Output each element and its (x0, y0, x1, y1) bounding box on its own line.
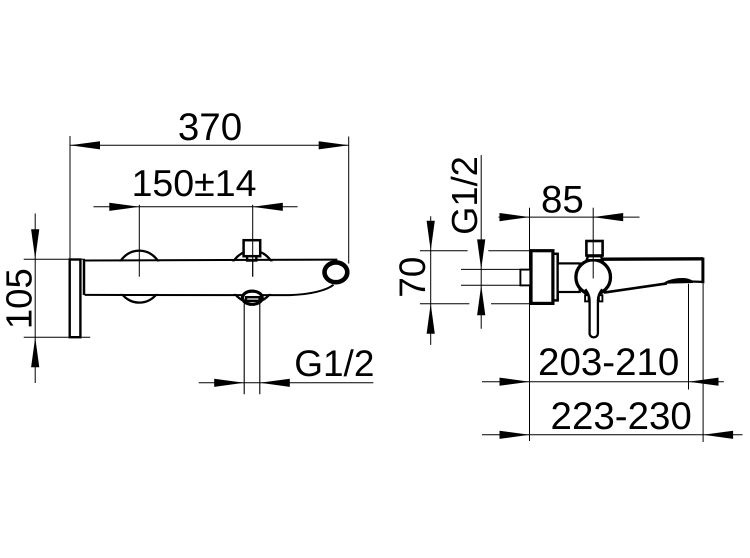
dimension 223-230: arrows (500, 431, 530, 439)
dimension G1/2 (front): line (199, 382, 374, 384)
centerline left connection (138, 205, 140, 277)
svg-text:370: 370 (178, 106, 242, 149)
dimension 370: arrows (70, 141, 100, 149)
knob neck (side) (587, 256, 603, 260)
svg-text:70: 70 (392, 257, 433, 298)
wall plate (side) (531, 251, 553, 304)
right escutcheon circle (229, 251, 276, 303)
back flange (side) (553, 254, 558, 301)
svg-text:223-230: 223-230 (551, 395, 692, 438)
G1/2 pipe extension lines (side) (461, 268, 520, 270)
dimension 370: extension lines (69, 136, 71, 260)
dimension 223-230: line (482, 434, 743, 436)
dimension 70: ticks (broken around G1/2 line) (420, 250, 468, 252)
knob centerline over knob (592, 241, 594, 279)
lever root tabs (585, 295, 589, 301)
dimension 370: line (70, 144, 349, 146)
dimension 70: arrows (427, 221, 435, 251)
body white mask (84, 261, 337, 294)
long extension line (plate back) (529, 208, 531, 441)
dimension 150±14: arrows (109, 203, 139, 211)
wall plate (front, left end) (70, 260, 81, 338)
lever handle (585, 289, 602, 337)
spout underside (604, 283, 667, 292)
dimension 105: arrows (31, 229, 39, 259)
dimension 150±14: line (94, 206, 298, 208)
dimension G1/2 (side): vertical line (480, 155, 482, 329)
supply pipe lines below outlet (243, 304, 245, 395)
body top line (84, 259, 337, 262)
svg-text:203-210: 203-210 (538, 341, 679, 384)
dimension 203-210: line (482, 381, 724, 383)
knob centerline extension (592, 208, 594, 279)
dimension 85: line (499, 216, 640, 218)
svg-text:G1/2: G1/2 (444, 156, 485, 235)
svg-text:G1/2: G1/2 (294, 343, 374, 384)
dimension 70: vertical line (430, 216, 432, 345)
outlet pipe section band (246, 297, 260, 301)
left escutcheon circle (116, 251, 163, 303)
dimension G1/2 (side): arrows (477, 239, 485, 269)
spout end face (701, 258, 704, 284)
extension line spout outlet (688, 284, 690, 390)
body bottom line (85, 285, 334, 295)
plate-body joint line (83, 260, 86, 296)
centerline through knob (front) (252, 240, 254, 277)
svg-text:85: 85 (541, 179, 584, 222)
cartridge circle (side) (576, 260, 611, 295)
outlet boss under right escutcheon (242, 291, 262, 304)
spout top line (602, 257, 703, 261)
svg-text:105: 105 (0, 268, 39, 329)
body (side) (558, 263, 580, 292)
diverter knob (front) (244, 240, 261, 256)
spout nose ellipse (325, 262, 348, 282)
spout aerator bulge (663, 278, 693, 284)
dimension 105: ticks (24, 258, 85, 260)
dimension 85: arrows (500, 213, 530, 221)
diverter knob (side) (586, 241, 602, 256)
svg-text:150±14: 150±14 (132, 162, 257, 204)
extension line spout tip (702, 284, 704, 443)
dimension G1/2 (front): arrows (214, 379, 244, 387)
dimension 203-210: arrows (500, 378, 530, 386)
centerline right connection (252, 205, 254, 277)
diverter knob neck (front) (247, 256, 256, 260)
G1/2 nipple (side) (520, 270, 530, 286)
dimension 105: vertical line (34, 214, 36, 384)
spout underside tail to tip (692, 280, 703, 283)
